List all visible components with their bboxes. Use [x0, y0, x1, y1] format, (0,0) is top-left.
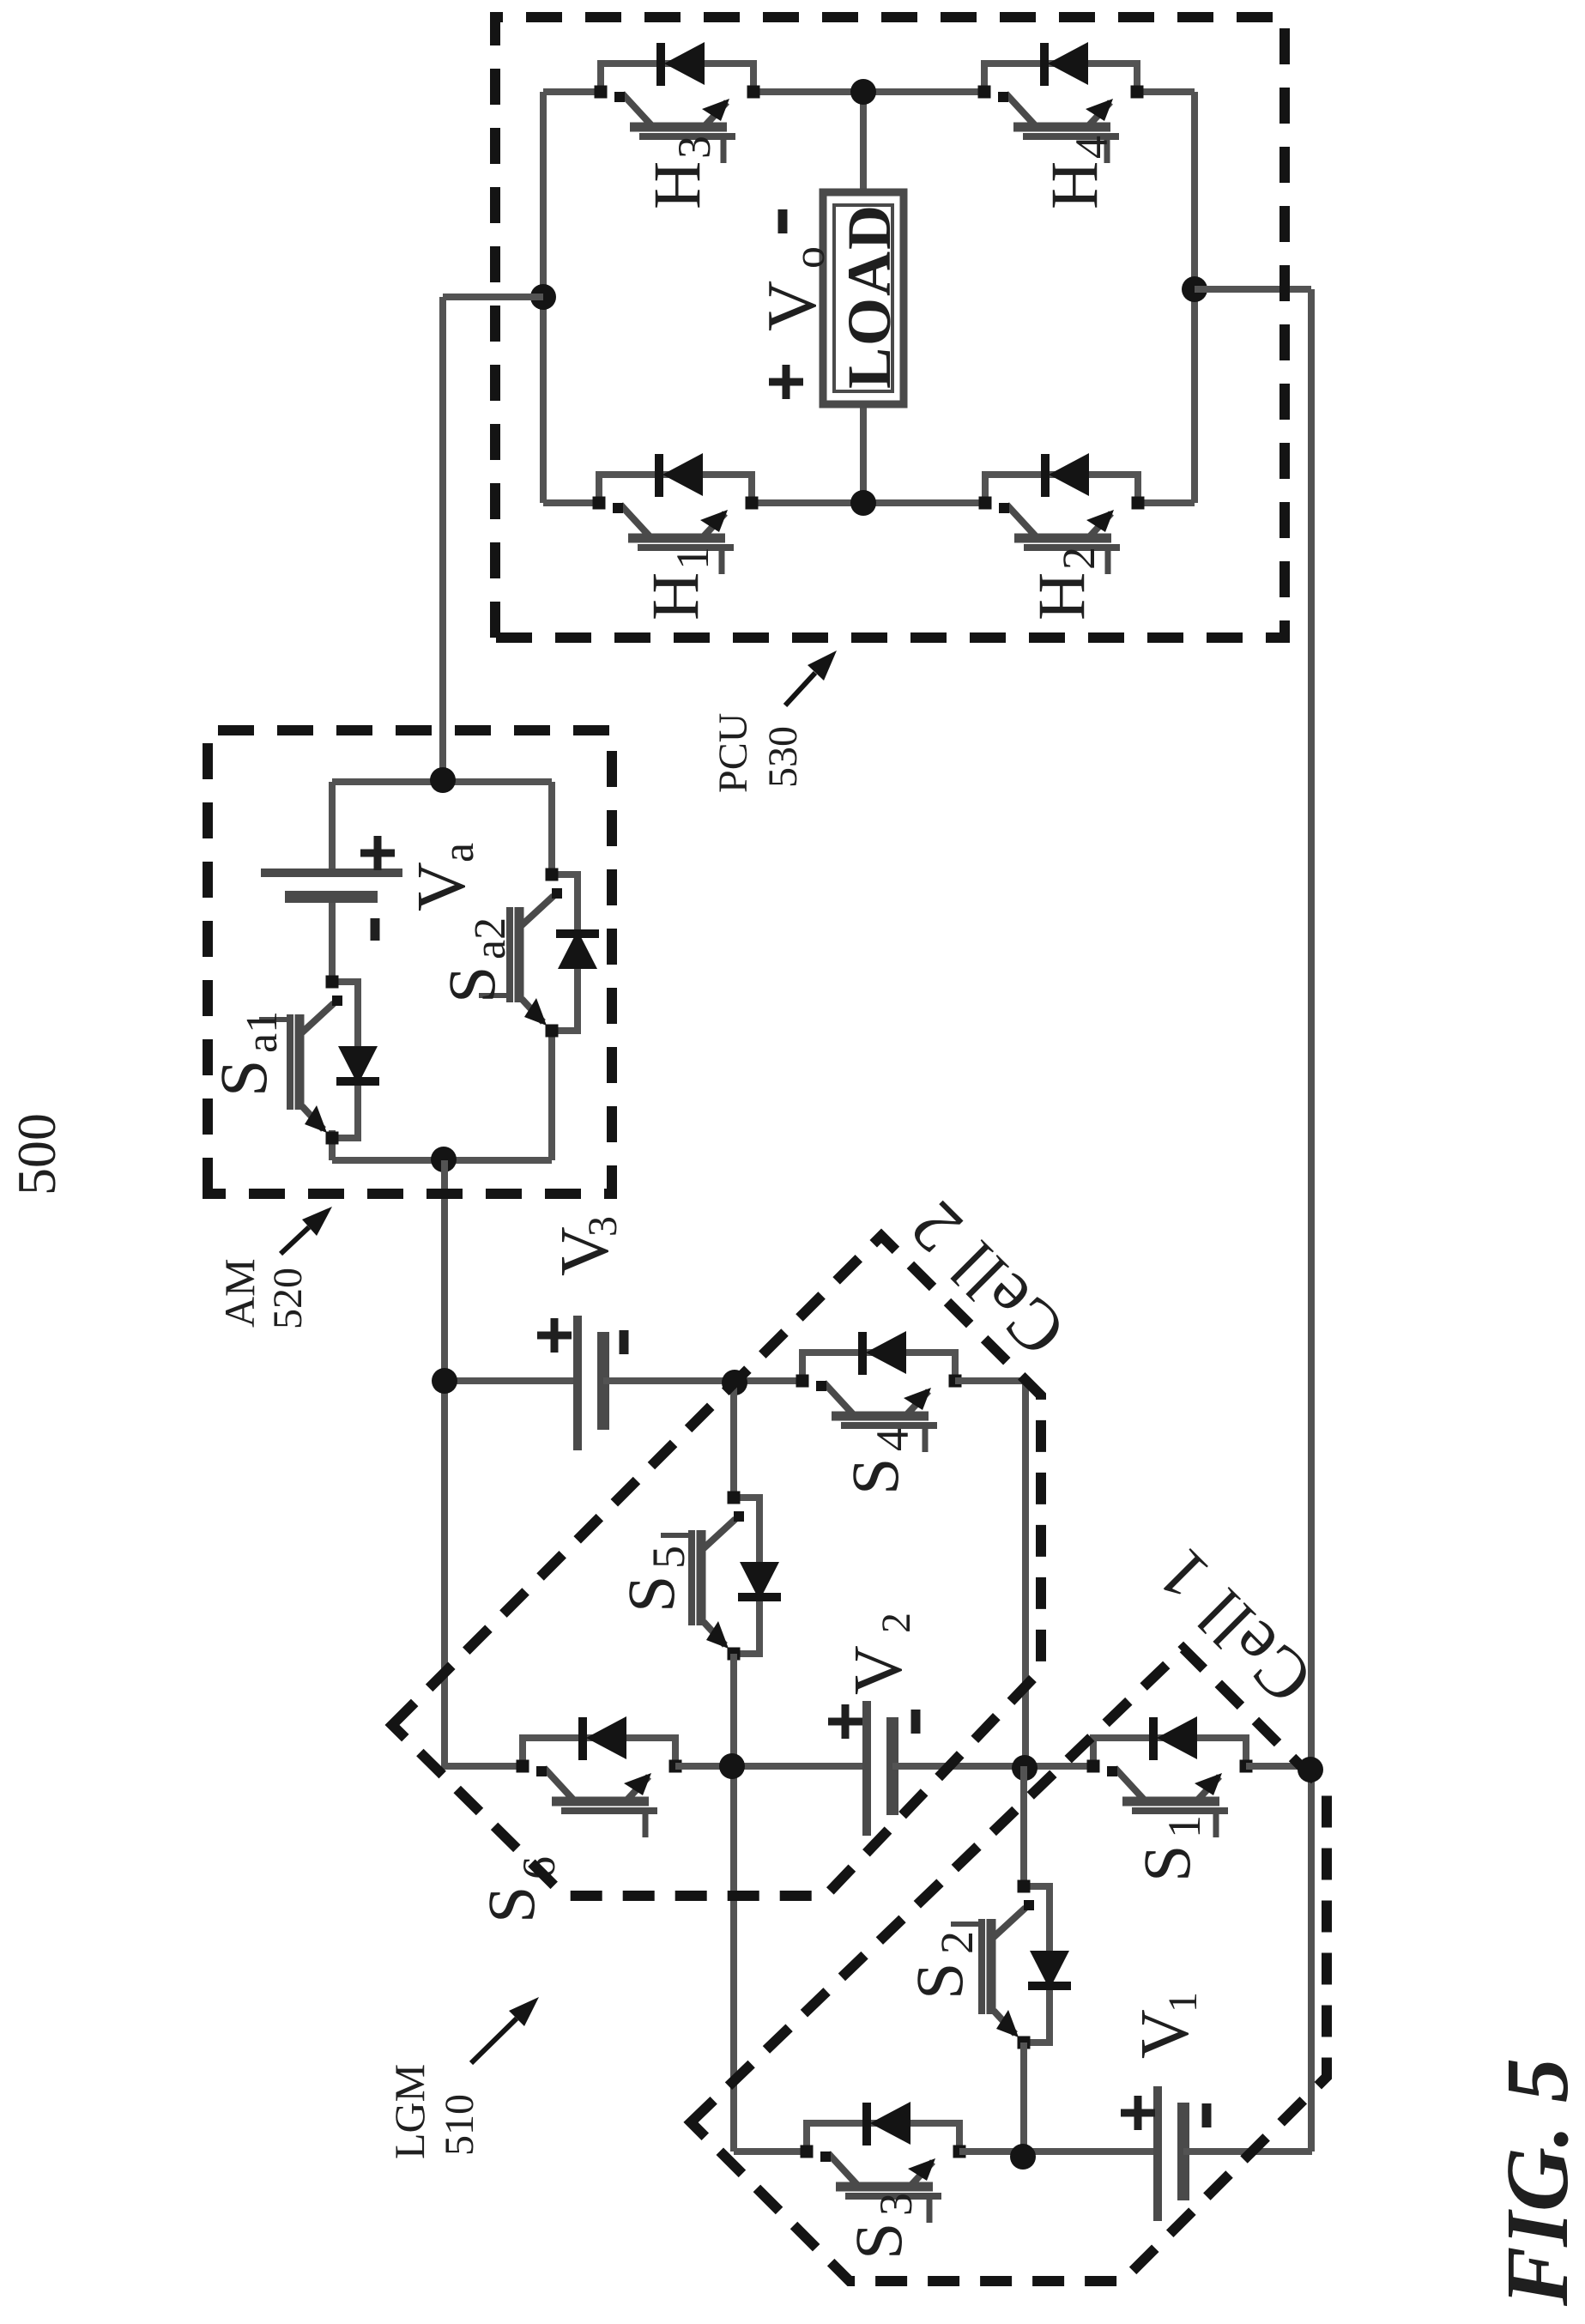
minus sign V1: [1202, 2103, 1212, 2127]
svg-text:a: a: [434, 843, 483, 862]
node AM left rail junction: [431, 1147, 457, 1172]
svg-text:S: S: [841, 2223, 916, 2260]
svg-text:PCU: PCU: [711, 713, 756, 793]
svg-text:2: 2: [931, 1931, 983, 1954]
wire long return: [1308, 289, 1315, 2152]
wire PCU bottom rail: [1191, 92, 1198, 503]
transistor S4 with antiparallel diode: [802, 1353, 955, 1381]
svg-text:3: 3: [668, 136, 720, 159]
svg-text:V: V: [753, 281, 831, 331]
svg-text:S: S: [206, 1060, 281, 1097]
wire S5 branch left: [730, 1654, 737, 2152]
wire S2 branch left: [1020, 2043, 1027, 2152]
svg-text:H: H: [639, 161, 714, 209]
wire load left: [860, 404, 867, 503]
svg-text:S: S: [434, 966, 509, 1003]
svg-text:S: S: [614, 1576, 688, 1613]
svg-text:S: S: [474, 1886, 548, 1923]
node leg B cross junction: [1012, 1755, 1038, 1781]
transistor H4 with antiparallel diode: [984, 64, 1137, 92]
svg-text:3: 3: [580, 1216, 626, 1237]
svg-text:V: V: [841, 1645, 917, 1695]
wire leg A mid: [603, 1377, 802, 1384]
wire leg A upper: [445, 1377, 578, 1384]
svg-text:V: V: [1128, 2009, 1203, 2059]
wire bottom tap down: [1195, 286, 1311, 293]
node leg B return junction: [1298, 1757, 1323, 1782]
svg-text:H: H: [638, 572, 712, 620]
wire leg B mid1: [675, 1763, 867, 1770]
svg-text:H: H: [1037, 161, 1111, 209]
wire leg C bottom: [1183, 2148, 1312, 2155]
svg-text:a1: a1: [238, 1011, 287, 1053]
transistor H1 with antiparallel diode: [599, 475, 752, 503]
minus sign V3: [620, 1330, 629, 1354]
wire right leg upper: [543, 88, 601, 95]
wire leg B mid2: [892, 1763, 1093, 1770]
wire right leg lower: [1137, 88, 1195, 95]
node bottom rail tap: [1182, 276, 1207, 302]
wire load right: [860, 92, 867, 192]
node leg C cross junction: [1010, 2144, 1036, 2170]
wire tap to AM: [439, 297, 446, 780]
transistor S2 with antiparallel diode: [1024, 1886, 1050, 2043]
arrow to AM: [281, 1227, 309, 1254]
Cell 2 dashed boundary: [392, 1236, 1041, 1896]
node load top junction: [850, 79, 876, 105]
wire AM top branch a: [329, 1130, 336, 1160]
plus sign Vo: [769, 365, 803, 399]
plus sign V3: [537, 1318, 572, 1353]
wire left leg lower: [1138, 499, 1195, 506]
svg-text:530: 530: [760, 726, 806, 788]
node load bottom junction: [850, 490, 876, 516]
node leg A top T: [432, 1368, 457, 1394]
svg-text:1: 1: [1160, 1992, 1206, 2012]
minus sign V2: [911, 1710, 921, 1734]
wire top rail tap up: [443, 294, 543, 300]
wire left leg mid: [752, 499, 985, 506]
svg-text:510: 510: [437, 2094, 482, 2156]
battery V1: [1153, 2086, 1162, 2221]
AM dashed box: [208, 730, 612, 1194]
transistor Sa1 with antiparallel diode: [332, 982, 358, 1138]
battery V2: [862, 1701, 871, 1836]
wire leg B to leg A: [1022, 1381, 1029, 1766]
svg-text:S: S: [1129, 1845, 1204, 1882]
wire AM right rail: [332, 778, 552, 785]
svg-text:FIG. 5: FIG. 5: [1488, 2058, 1585, 2307]
transistor Sa2 with antiparallel diode: [552, 875, 578, 1031]
svg-text:2: 2: [874, 1613, 919, 1633]
svg-text:AM: AM: [215, 1258, 263, 1328]
transistor H3 with antiparallel diode: [601, 64, 753, 92]
svg-text:LGM: LGM: [385, 2064, 433, 2159]
svg-text:H: H: [1024, 572, 1098, 620]
transistor H2 with antiparallel diode: [985, 475, 1138, 503]
load box: [823, 192, 904, 404]
wire leg C mid: [959, 2148, 1158, 2155]
transistor S6 with antiparallel diode: [523, 1738, 675, 1766]
plus sign V2: [828, 1704, 862, 1739]
svg-text:S: S: [902, 1963, 977, 2000]
svg-text:5: 5: [643, 1546, 694, 1569]
wire left leg upper: [543, 499, 599, 506]
svg-text:1: 1: [1159, 1815, 1210, 1838]
wire AM bottom branch b: [548, 782, 555, 875]
arrow to PCU: [785, 673, 815, 705]
transistor S3 with antiparallel diode: [807, 2123, 959, 2152]
wire leg B bottom: [1246, 1763, 1311, 1770]
wire AM out: [441, 1160, 448, 1765]
plus sign V1: [1121, 2096, 1155, 2130]
svg-text:a2: a2: [466, 917, 515, 959]
svg-text:1: 1: [667, 547, 718, 570]
wire leg A lower: [955, 1377, 1025, 1384]
wire AM top branch c: [329, 782, 336, 873]
svg-text:500: 500: [6, 1113, 67, 1195]
svg-text:520: 520: [265, 1268, 311, 1329]
node top rail tap: [530, 284, 556, 310]
svg-text:S: S: [838, 1458, 912, 1495]
svg-text:3: 3: [870, 2193, 922, 2216]
wire leg C top: [734, 2148, 807, 2155]
wire AM left rail: [332, 1157, 552, 1164]
wire S5 branch right: [730, 1383, 737, 1498]
plus sign Va: [360, 836, 395, 870]
svg-text:o: o: [785, 246, 834, 269]
svg-text:2: 2: [1053, 547, 1104, 570]
wire AM bottom branch a: [548, 1031, 555, 1160]
minus sign Vo: [778, 209, 788, 233]
node leg A S5 junction: [722, 1370, 747, 1395]
Cell 1 dashed boundary: [691, 1649, 1327, 2281]
svg-text:4: 4: [867, 1428, 918, 1451]
wire leg B top: [441, 1763, 523, 1770]
PCU dashed box: [495, 17, 1285, 638]
transistor S1 with antiparallel diode: [1093, 1738, 1246, 1766]
node leg B S5 junction: [719, 1753, 745, 1779]
battery Va: [261, 868, 402, 877]
wire AM top branch b: [329, 897, 336, 982]
arrow to LGM: [471, 2018, 517, 2063]
wire right leg mid: [753, 88, 984, 95]
minus sign Va: [371, 918, 380, 941]
svg-text:4: 4: [1066, 136, 1117, 159]
svg-text:V: V: [404, 862, 480, 911]
wire S2 branch: [1020, 1766, 1027, 1886]
svg-text:LOAD: LOAD: [835, 203, 904, 389]
battery V3: [573, 1316, 582, 1450]
node AM right rail junction: [430, 767, 456, 793]
transistor S5 with antiparallel diode: [734, 1498, 759, 1654]
wire PCU top rail: [540, 92, 547, 503]
